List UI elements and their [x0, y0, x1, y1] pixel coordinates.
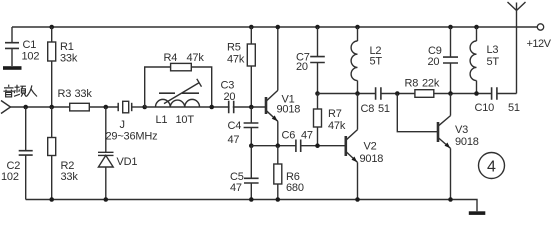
label 音频入 (audio input, drawn strokes) — [3, 85, 37, 97]
wire bottom ground rail — [26, 200, 477, 212]
label VD1 — [117, 156, 138, 168]
svg-text:9018: 9018 — [455, 136, 479, 148]
svg-text:C8: C8 — [361, 103, 375, 115]
resistor R6 — [277, 146, 279, 164]
svg-text:R3: R3 — [58, 88, 72, 100]
node bottom C5 — [249, 197, 254, 202]
node top rail / R1 — [49, 25, 54, 30]
svg-text:47k: 47k — [227, 54, 245, 66]
resistor R3 — [70, 103, 90, 111]
label L3 5T — [487, 44, 500, 68]
L1 core dashes — [159, 92, 199, 94]
label C5 47 — [230, 171, 244, 194]
L1 adjust arrow — [164, 79, 202, 104]
node V1 base — [249, 105, 254, 110]
node bottom R6 — [276, 197, 281, 202]
antenna — [508, 2, 526, 94]
wire left rail drop to C1 — [11, 27, 13, 42]
svg-text:47k: 47k — [187, 52, 205, 64]
node VD1 tap — [104, 105, 109, 110]
label J 29~36MHz — [106, 119, 158, 143]
label C7 20 — [296, 51, 310, 73]
transistor V1 — [265, 97, 268, 114]
capacitor C2 — [19, 151, 33, 155]
svg-text:R4: R4 — [164, 52, 178, 64]
node rail V1 collector — [276, 25, 281, 30]
node rail L2 — [355, 25, 360, 30]
label C8 51 — [361, 103, 390, 115]
label C9 20 — [428, 45, 442, 68]
svg-text:C6: C6 — [282, 130, 296, 142]
label V2 9018 — [360, 140, 384, 164]
svg-text:R7: R7 — [328, 108, 342, 120]
ground (main) — [469, 211, 486, 215]
label C3 20 — [221, 80, 236, 103]
wire main input line — [11, 106, 70, 108]
svg-text:R2: R2 — [61, 160, 75, 172]
wire top supply rail — [12, 26, 537, 28]
label V1 9018 — [277, 93, 301, 115]
label R2 33k — [61, 160, 79, 183]
circled 4 — [479, 153, 505, 179]
svg-text:4: 4 — [487, 159, 496, 176]
transistor V2 — [344, 136, 347, 156]
svg-text:9018: 9018 — [277, 104, 301, 116]
capacitor C3 — [230, 100, 233, 114]
node R1/R2 tap — [49, 105, 54, 110]
label C6 47 — [282, 130, 313, 142]
svg-text:33k: 33k — [75, 88, 93, 100]
resistor R5 — [250, 27, 252, 44]
svg-text:10T: 10T — [176, 114, 195, 126]
label R1 33k — [60, 41, 78, 65]
label R3 33k — [58, 88, 93, 100]
svg-text:C10: C10 — [475, 102, 495, 114]
svg-text:C2: C2 — [7, 160, 21, 172]
label R5 47k — [227, 42, 245, 66]
capacitor C6 — [296, 140, 301, 153]
capacitor C10 — [492, 87, 497, 100]
capacitor C1 — [5, 43, 19, 49]
capacitor C8 — [376, 87, 381, 100]
svg-text:680: 680 — [286, 182, 304, 194]
svg-text:V3: V3 — [455, 124, 468, 136]
wire mid row — [318, 93, 517, 95]
resistor R8 — [415, 90, 434, 98]
wire V3 base branch — [397, 94, 437, 132]
node C8/R8 junction — [395, 91, 400, 96]
wire R4 feedback loop — [145, 67, 212, 107]
svg-text:C4: C4 — [228, 120, 242, 132]
node bottom VD1 — [104, 197, 109, 202]
+12V terminal — [537, 24, 543, 30]
node loop right — [209, 105, 214, 110]
node R7 / V2 base — [315, 143, 320, 148]
node mid C9 / V3 collector — [448, 91, 453, 96]
svg-text:47: 47 — [301, 130, 313, 142]
label L2 5T — [370, 45, 383, 68]
node mid L2 / V2 collector — [355, 91, 360, 96]
svg-text:20: 20 — [296, 61, 308, 73]
svg-text:V2: V2 — [364, 140, 377, 152]
label +12V — [527, 38, 551, 50]
label R7 47k — [328, 108, 346, 132]
svg-text:51: 51 — [508, 102, 520, 114]
svg-text:C1: C1 — [23, 39, 37, 51]
svg-text:5T: 5T — [370, 56, 383, 68]
node bottom V2 emitter — [355, 197, 360, 202]
node rail R5 — [249, 25, 254, 30]
label C4 47 — [228, 120, 242, 146]
inductor L2 — [357, 27, 359, 41]
svg-text:9018: 9018 — [360, 153, 384, 165]
svg-text:47: 47 — [228, 134, 240, 146]
svg-text:L1: L1 — [156, 114, 168, 126]
svg-text:33k: 33k — [61, 171, 79, 183]
wire emitter row — [251, 145, 344, 147]
resistor R7 — [317, 94, 319, 110]
node mid C7/R7 — [315, 91, 320, 96]
wire C2 branch — [25, 107, 27, 150]
crystal J — [117, 103, 119, 111]
node rail C7 — [315, 25, 320, 30]
svg-text:20: 20 — [428, 56, 440, 68]
node bottom V3 emitter — [448, 197, 453, 202]
svg-text:L3: L3 — [487, 44, 499, 56]
svg-text:20: 20 — [224, 91, 236, 103]
varactor diode VD1 — [105, 107, 107, 152]
label C10 51 — [475, 102, 520, 114]
svg-text:R8: R8 — [405, 78, 419, 90]
resistor R1 — [51, 27, 53, 42]
svg-text:R1: R1 — [60, 41, 74, 53]
svg-text:51: 51 — [378, 103, 390, 115]
svg-text:102: 102 — [1, 171, 19, 183]
svg-text:J: J — [120, 119, 125, 131]
resistor R4 — [171, 63, 192, 70]
inductor L1 — [145, 106, 265, 108]
node rail L3 — [474, 25, 479, 30]
svg-text:102: 102 — [22, 50, 40, 62]
capacitor C5 — [250, 146, 252, 178]
svg-text:VD1: VD1 — [117, 156, 138, 168]
resistor R2 — [51, 107, 53, 138]
ground (under C1) — [3, 66, 22, 70]
node C4/C5 junction — [249, 143, 254, 148]
svg-text:+12V: +12V — [527, 38, 551, 50]
svg-text:29~36MHz: 29~36MHz — [106, 131, 158, 143]
label L1 10T — [156, 114, 195, 126]
label C1 102 — [22, 39, 40, 62]
node V1 emitter — [276, 143, 281, 148]
inductor L3 — [476, 27, 478, 41]
svg-text:5T: 5T — [487, 56, 500, 68]
label C2 102 — [1, 160, 20, 183]
svg-text:R5: R5 — [227, 42, 241, 54]
node rail C9 — [448, 25, 453, 30]
capacitor C4 — [250, 107, 252, 123]
capacitor C9 — [450, 27, 452, 57]
svg-text:22k: 22k — [422, 78, 440, 90]
label R4 47k — [164, 52, 205, 64]
svg-text:47k: 47k — [328, 120, 346, 132]
node bottom R2 — [49, 197, 54, 202]
node loop left — [142, 105, 147, 110]
capacitor C7 — [317, 27, 319, 56]
node mid L3 — [474, 91, 479, 96]
input chevron — [1, 101, 11, 114]
svg-text:33k: 33k — [60, 53, 78, 65]
label R8 22k — [405, 78, 440, 90]
label V3 9018 — [455, 124, 479, 148]
node C2 tap — [23, 105, 28, 110]
label R6 680 — [286, 171, 304, 194]
transistor V3 — [437, 122, 440, 142]
svg-text:47: 47 — [230, 182, 242, 194]
